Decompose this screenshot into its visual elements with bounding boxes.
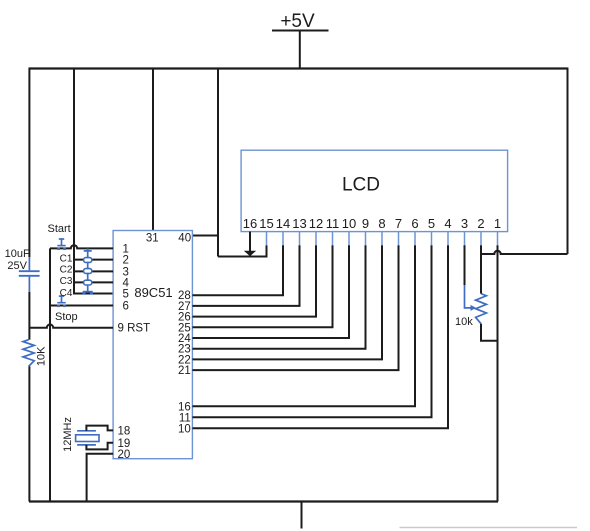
+5V supply symbol <box>272 11 329 69</box>
svg-text:2: 2 <box>477 216 484 231</box>
LCD pin 13 stub <box>299 232 301 246</box>
svg-text:16: 16 <box>243 216 257 231</box>
svg-text:15: 15 <box>259 216 273 231</box>
switch Stop pushbutton <box>55 296 78 323</box>
svg-text:Start: Start <box>48 223 71 235</box>
svg-text:12: 12 <box>309 216 323 231</box>
wire U1 pin20 to ground rail <box>87 454 114 502</box>
wire crystal to U1 pin19 <box>86 443 113 450</box>
wire LCD pin 10 to U1 <box>192 245 349 338</box>
wire +5V top rail <box>29 67 568 69</box>
wire LCD pin 6 to U1 <box>192 245 415 406</box>
partial grey line (bottom right) <box>400 527 578 529</box>
svg-text:89C51: 89C51 <box>134 285 172 300</box>
switch Start pushbutton <box>48 223 71 250</box>
svg-text:C4: C4 <box>60 288 73 299</box>
LCD pin 9 stub <box>365 232 367 246</box>
LCD pin 15 stub <box>266 232 268 246</box>
wire LCD pin 7 to U1 <box>192 245 398 370</box>
wire LCD pin 12 to U1 <box>192 245 316 316</box>
wire LCD pin 14 to U1 <box>192 245 283 295</box>
LCD pin 8 stub <box>381 232 383 246</box>
LCD pin 14 stub <box>282 232 284 246</box>
wire crystal to U1 pin18 <box>86 426 113 431</box>
svg-text:9 RST: 9 RST <box>118 323 151 335</box>
wire pot top to +5V node <box>480 254 482 294</box>
svg-text:25V: 25V <box>7 260 27 272</box>
wire U1 pin4 <box>74 281 113 283</box>
wire pot bottom to ground line <box>481 324 498 341</box>
resistor R1 10K <box>23 340 48 367</box>
IC U1 89C51 microcontroller box <box>113 231 192 459</box>
svg-text:31: 31 <box>146 233 159 245</box>
svg-text:3: 3 <box>461 216 468 231</box>
svg-text:5: 5 <box>123 289 129 301</box>
svg-text:7: 7 <box>395 216 402 231</box>
svg-text:12MHz: 12MHz <box>62 417 74 452</box>
svg-text:C3: C3 <box>60 276 73 287</box>
wire ground stub bottom <box>301 502 303 529</box>
wire LCD pin15 to +5V branch <box>218 245 267 256</box>
wire U1 pin2 <box>74 259 113 261</box>
svg-text:14: 14 <box>276 216 290 231</box>
svg-text:2: 2 <box>123 255 129 267</box>
wire +5V branch to pin31 <box>152 68 154 231</box>
capacitor C5 10uF 25V (electrolytic) <box>5 248 40 292</box>
wire ground branch x50 (start/stop common) <box>49 248 51 501</box>
ground arrow at LCD pin16 <box>244 245 256 256</box>
svg-text:10uF: 10uF <box>5 248 30 260</box>
LCD pin 7 stub <box>398 232 400 246</box>
svg-text:10k: 10k <box>455 316 473 328</box>
switch chain C1-C4 top actuator <box>84 248 92 257</box>
svg-text:Stop: Stop <box>55 311 78 323</box>
LCD pin 10 stub <box>348 232 350 246</box>
svg-text:13: 13 <box>292 216 306 231</box>
LCD pin 12 stub <box>315 232 317 246</box>
svg-text:18: 18 <box>118 425 131 437</box>
svg-text:4: 4 <box>444 216 451 231</box>
wire U1 pin9 RST (hop over x50) <box>29 325 113 328</box>
svg-text:10K: 10K <box>36 346 48 366</box>
svg-text:5: 5 <box>428 216 435 231</box>
wire LCD pin 9 to U1 <box>192 245 365 349</box>
LCD module box <box>241 150 508 231</box>
LCD pin 2 stub <box>480 232 482 246</box>
wire LCD pin3 to pot wiper <box>464 245 466 285</box>
wire left rail mid segment <box>28 292 30 340</box>
wire left rail lower segment <box>28 366 30 501</box>
svg-text:C2: C2 <box>60 265 73 276</box>
wire +5V branch x218 <box>217 68 219 257</box>
wire LCD pin2 to +5V right rail (hop over pin1 wire) <box>481 245 568 254</box>
svg-text:21: 21 <box>178 365 191 377</box>
potentiometer RV1 10k body <box>455 294 486 328</box>
svg-text:8: 8 <box>378 216 385 231</box>
svg-text:1: 1 <box>123 243 129 255</box>
wire LCD pin 4 to U1 <box>192 245 448 428</box>
svg-text:9: 9 <box>362 216 369 231</box>
LCD pin 4 stub <box>447 232 449 246</box>
wire LCD pin1 to ground rail <box>497 245 499 501</box>
switch C2 bead <box>84 269 92 274</box>
wire LCD pin 5 to U1 <box>192 245 431 417</box>
wire ground bottom rail <box>29 500 498 502</box>
LCD pin 16 stub <box>249 232 251 246</box>
switch C1 bead <box>84 258 92 263</box>
svg-text:20: 20 <box>118 449 131 461</box>
LCD pin 5 stub <box>431 232 433 246</box>
LCD pin 11 stub <box>332 232 334 246</box>
wire +5V right rail down <box>567 68 569 255</box>
wire left rail upper segment <box>28 68 30 258</box>
wire U1 pin1 (hop over x74) <box>50 245 113 248</box>
wire LCD pin 11 to U1 <box>192 245 332 327</box>
wire pin40 to +5V branch <box>192 235 218 237</box>
svg-text:1: 1 <box>494 216 501 231</box>
LCD pin 1 stub <box>497 232 499 246</box>
wire U1 pin6 (stop) <box>50 305 113 307</box>
LCD pin 3 stub <box>464 232 466 246</box>
svg-text:6: 6 <box>411 216 418 231</box>
svg-text:C1: C1 <box>60 253 73 264</box>
switch chain stems <box>87 262 89 291</box>
svg-text:6: 6 <box>123 301 129 313</box>
wire LCD pin 8 to U1 <box>192 245 382 359</box>
svg-text:11: 11 <box>326 216 340 231</box>
switch C3 bead <box>84 280 92 285</box>
switch chain bottom bridge (C4) <box>83 292 94 295</box>
svg-text:LCD: LCD <box>342 175 380 196</box>
wire U1 pin3 <box>74 270 113 272</box>
svg-text:+5V: +5V <box>280 11 315 32</box>
wire LCD pin 13 to U1 <box>192 245 299 306</box>
svg-text:10: 10 <box>178 423 191 435</box>
LCD pin 6 stub <box>414 232 416 246</box>
svg-text:10: 10 <box>342 216 356 231</box>
potentiometer RV1 10k wiper arrow <box>465 285 477 311</box>
crystal X1 12MHz <box>62 417 99 452</box>
svg-text:40: 40 <box>178 233 191 245</box>
wire +5V branch x74 to pin5 <box>74 68 113 294</box>
